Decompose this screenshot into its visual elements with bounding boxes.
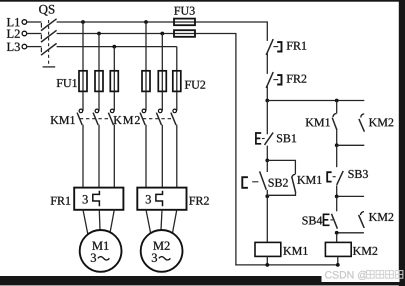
pushbutton SB2 NO start xyxy=(242,177,248,188)
wire L1 to control drop xyxy=(266,21,268,41)
pushbutton SB4 label xyxy=(303,216,323,224)
switch QS pole 2 fixed tick xyxy=(40,35,42,40)
contact KM2 aux bottom label xyxy=(369,213,393,221)
contactor KM2 main contact 1 xyxy=(142,109,146,113)
wire col3 drop to fuse xyxy=(113,47,115,71)
wire M1 lead mid xyxy=(98,210,101,230)
thermal relay FR1 label xyxy=(51,197,71,205)
contactor KM1 main contact 2 xyxy=(95,109,99,113)
fuse FU1 label xyxy=(57,79,77,87)
fuse FU2 element 1 xyxy=(145,71,147,92)
watermark background xyxy=(322,276,400,282)
fuse FU3 element a xyxy=(174,19,195,26)
contactor KM1 main contact 3 xyxy=(110,109,114,113)
wire KM1 coil to bottom rail xyxy=(266,256,268,265)
switch QS pole 3 blade xyxy=(41,43,57,55)
wire bottom rail xyxy=(235,264,338,266)
bottom border bar xyxy=(0,276,405,285)
motor M1 circle xyxy=(80,230,122,272)
wire node B to SB2 xyxy=(266,160,268,172)
terminal label L3 xyxy=(7,43,20,51)
wire col1 drop to fuse xyxy=(82,22,84,71)
wire M2 lead mid xyxy=(161,210,162,230)
thermal relay FR2 heater symbol xyxy=(156,191,163,206)
watermark glyph blocks xyxy=(367,271,375,279)
switch QS pole 2 blade xyxy=(41,30,57,42)
junction dot phase tap col2 xyxy=(97,32,101,36)
wire col5 drop to fuse xyxy=(161,34,163,71)
wire col4 drop to fuse xyxy=(145,22,147,71)
wire col6 drop to fuse xyxy=(176,47,178,71)
fuse FU3 label xyxy=(174,7,195,15)
switch QS pole 1 blade xyxy=(41,19,57,31)
wire SB1 to node B xyxy=(266,146,268,161)
node D junction dot xyxy=(335,195,339,199)
wire node A to SB1 xyxy=(266,101,268,135)
wire M1 lead right xyxy=(110,210,115,234)
fuse FU2 element 3 xyxy=(176,71,178,92)
switch QS linkage dashed line xyxy=(48,20,50,66)
wire KM1 aux top lead xyxy=(336,101,338,114)
wire L3 bus xyxy=(57,46,177,48)
pushbutton SB1 NC stop xyxy=(256,133,261,144)
wire KM2 coil to bottom rail xyxy=(337,256,339,265)
wire M1 lead left xyxy=(83,210,88,234)
top border bar xyxy=(0,0,405,2)
switch QS linkage handle tick xyxy=(43,66,56,68)
thermal relay FR1 count 3 xyxy=(83,195,88,203)
fuse FU1 element 1 xyxy=(82,71,84,92)
contact KM1 aux NO (holding) xyxy=(292,174,295,178)
wire col2 contact to FR box xyxy=(98,125,100,188)
node B junction dot xyxy=(265,159,269,163)
motor M2 3-phase mark xyxy=(152,254,157,262)
wire col2 fuse to contact xyxy=(98,91,100,110)
pushbutton SB1 label xyxy=(277,134,296,142)
wire FR1 to FR2 xyxy=(266,53,268,74)
node C junction dot xyxy=(265,194,269,198)
wire col6 contact to FR box xyxy=(176,125,178,188)
wire col1 contact to FR box xyxy=(82,125,84,188)
contact KM1 aux label xyxy=(306,118,330,126)
wire KM1 holding loop bottom xyxy=(267,193,295,196)
fuse FU1 element 2 xyxy=(98,71,100,92)
fuse FU2 element 2 xyxy=(161,71,163,92)
switch QS pole 1 fixed tick xyxy=(40,23,42,28)
contactor KM2 main label xyxy=(114,116,140,124)
wire L3 terminal to QS xyxy=(27,46,42,48)
switch QS label xyxy=(39,5,54,16)
wire rung2 xyxy=(337,144,365,146)
KM1 linkage dashed line xyxy=(80,118,111,120)
wire node E to KM2 coil xyxy=(336,233,338,243)
contact KM2 aux top label xyxy=(369,118,393,126)
wire L2 bus xyxy=(57,33,237,35)
wire rung2 to SB3 xyxy=(336,145,338,167)
coil KM1 xyxy=(255,242,281,256)
contact KM2 aux NO (parallel top) xyxy=(361,114,365,118)
switch QS pole 3 fixed tick xyxy=(40,48,42,53)
watermark CSDN text xyxy=(325,271,367,280)
wire rung3 node D to KM2 branch xyxy=(337,195,364,197)
contactor KM1 main contact 1 xyxy=(79,109,83,113)
wire col1 fuse to contact xyxy=(82,91,84,110)
contact FR2 NC (control) xyxy=(266,72,273,88)
wire col4 contact to FR box xyxy=(145,125,147,188)
wire col3 contact to FR box xyxy=(113,125,115,188)
KM2 linkage dashed line xyxy=(143,118,174,120)
wire M2 lead left xyxy=(146,210,151,234)
junction dot phase tap col4 xyxy=(144,20,148,24)
terminal circle L1 xyxy=(22,20,27,25)
motor M1 3-phase mark xyxy=(91,254,96,262)
wire rung4 xyxy=(337,232,364,234)
junction dot bottom rail at KM2 xyxy=(336,263,340,267)
wire node D to SB4 xyxy=(336,196,338,211)
contact FR2 label xyxy=(287,75,307,83)
motor M2 circle xyxy=(141,230,183,272)
junction dot phase tap col5 xyxy=(160,32,164,36)
thermal relay FR2 label xyxy=(189,197,209,205)
junction dot phase tap col3 xyxy=(112,45,116,49)
thermal relay FR2 count 3 xyxy=(146,195,151,203)
wire col4 fuse to contact xyxy=(145,91,147,110)
contact FR1 label xyxy=(287,42,307,50)
pushbutton SB2 label xyxy=(269,179,288,187)
wire col6 fuse to contact xyxy=(176,91,178,110)
wire L2 return drop xyxy=(235,33,237,266)
coil KM1 label xyxy=(283,247,307,255)
wire L1 bus xyxy=(57,21,268,23)
wire SB3 to node D xyxy=(336,185,338,196)
wire L2 terminal to QS xyxy=(27,33,42,35)
junction dot rung2 at KM1 aux xyxy=(335,143,339,147)
junction dot top rung at KM1 aux xyxy=(335,99,339,103)
contact KM1 holding label xyxy=(297,176,321,184)
contactor KM2 main contact 2 xyxy=(158,109,162,113)
fuse FU3 element b xyxy=(174,30,195,37)
wire top rung node A to KM2 branch xyxy=(267,100,364,102)
motor M2 name xyxy=(153,242,169,250)
junction dot bottom rail at KM1 xyxy=(265,263,269,267)
contactor KM2 main contact 3 xyxy=(173,109,177,113)
wire col2 drop to fuse xyxy=(98,34,100,71)
wire KM1 holding loop top xyxy=(267,160,295,174)
wire col5 fuse to contact xyxy=(161,91,163,110)
terminal circle L3 xyxy=(22,44,27,49)
wire M2 lead right xyxy=(172,210,177,234)
motor M1 name xyxy=(92,242,108,250)
contact KM1 aux NO (interlock top) xyxy=(333,114,337,118)
contactor KM1 main label xyxy=(51,116,75,124)
node A junction dot xyxy=(265,99,269,103)
wire L1 terminal to QS xyxy=(27,21,42,23)
pushbutton SB3 label xyxy=(349,170,368,178)
wire KM1 aux bottom lead xyxy=(336,130,338,145)
wire col5 contact to FR box xyxy=(161,125,163,188)
contact KM2 aux NO (parallel bottom) xyxy=(361,212,365,216)
fuse FU1 element 3 xyxy=(113,71,115,92)
terminal label L1 xyxy=(7,18,20,26)
pushbutton SB4 NO xyxy=(324,214,330,225)
junction dot phase tap col1 xyxy=(81,20,85,24)
terminal label L2 xyxy=(7,30,20,38)
wire node C to KM1 coil xyxy=(266,196,268,242)
wire SB2 to node C xyxy=(266,190,268,196)
right border bar xyxy=(399,0,405,286)
pushbutton SB3 xyxy=(327,172,331,181)
thermal relay FR1 box xyxy=(74,188,123,210)
contact FR1 NC (control) xyxy=(266,39,273,55)
thermal relay FR1 heater symbol xyxy=(93,191,100,206)
coil KM2 xyxy=(325,242,351,256)
node E junction dot xyxy=(335,231,339,235)
fuse FU2 label xyxy=(185,81,205,89)
coil KM2 label xyxy=(353,247,377,255)
wire col3 fuse to contact xyxy=(113,91,115,110)
terminal circle L2 xyxy=(22,31,27,36)
wire FR2 to node A xyxy=(266,86,268,100)
thermal relay FR2 box xyxy=(137,188,186,210)
